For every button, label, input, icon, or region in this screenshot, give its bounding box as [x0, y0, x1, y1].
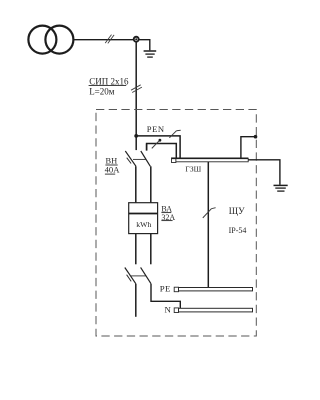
node: dot on enclosure wall — [254, 135, 258, 139]
svg-text:IP-54: IP-54 — [229, 226, 247, 235]
dashed enclosure ЩУ — [96, 110, 256, 337]
svg-text:kWh: kWh — [136, 220, 151, 229]
N split wire to busbar — [147, 144, 177, 159]
wire meter to switch QS2 right — [150, 234, 152, 265]
PE bar clamp — [174, 287, 178, 292]
underline of cable label — [89, 85, 127, 87]
svg-text:N: N — [165, 304, 172, 314]
N busbar — [179, 308, 253, 312]
main drop wire — [135, 42, 137, 136]
switch QS1 left blade — [125, 151, 136, 166]
switch QS2 linkage — [131, 275, 146, 277]
PE wire slash + tick mark — [203, 208, 216, 218]
switch QS1 right pole stub — [146, 144, 148, 151]
meter divider (breaker ВА section) — [129, 213, 158, 215]
wire ГЗШ to PE bar — [207, 162, 209, 288]
node: PEN junction dot — [134, 134, 138, 138]
svg-text:СИП 2х16: СИП 2х16 — [89, 76, 129, 86]
double slash marks on drop wire — [131, 85, 142, 93]
switch QS2 right blade — [141, 267, 151, 283]
double slash marks on supply line — [105, 35, 114, 44]
switch QS2 left blade — [125, 268, 136, 284]
PE busbar — [179, 288, 253, 291]
wire from transformer to junction — [73, 39, 133, 41]
busbar ГЗШ clamp — [172, 158, 176, 163]
transformer T1 — [28, 26, 73, 54]
wire switch QS1 to meter — [135, 166, 137, 202]
switch QS2 left tick — [127, 275, 132, 282]
ground (right earth electrode) — [274, 185, 288, 191]
busbar ГЗШ bar — [176, 158, 248, 162]
meter box kWh — [129, 203, 158, 234]
svg-text:PEN: PEN — [147, 124, 165, 134]
N split slash + dot mark — [152, 141, 159, 149]
wire load tail (L) — [135, 284, 137, 317]
wire meter to switch QS2 left — [135, 234, 137, 265]
N bar clamp — [174, 308, 178, 313]
svg-text:PE: PE — [160, 283, 171, 293]
wire switch QS1 right to meter — [150, 166, 152, 202]
junction circle (bolted joint) — [134, 37, 139, 42]
PEN slash + tick mark — [169, 130, 180, 138]
switch QS1 left tick — [127, 158, 131, 164]
wire junction to top ground — [139, 40, 150, 51]
PEN wire to busbar — [136, 136, 180, 158]
wire busbar to enclosure wall — [241, 137, 256, 159]
ground (top right of supply) — [144, 51, 157, 57]
wire busbar to earth — [248, 160, 280, 185]
switch QS1 ВН left pole stub — [135, 136, 137, 150]
switch QS1 linkage — [133, 158, 146, 160]
svg-text:L=20м: L=20м — [89, 86, 115, 96]
svg-text:ЩУ: ЩУ — [229, 206, 245, 216]
switch QS1 right blade — [141, 151, 151, 166]
svg-text:40А: 40А — [105, 165, 121, 175]
wire to N bar — [151, 284, 180, 309]
svg-text:ГЗШ: ГЗШ — [185, 165, 201, 174]
